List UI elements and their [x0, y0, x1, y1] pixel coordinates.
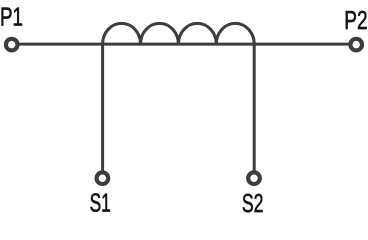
wire P1 to P2 [12, 43, 357, 46]
svg-text:S2: S2 [242, 188, 264, 218]
terminal P1 [6, 39, 18, 51]
svg-text:P2: P2 [344, 5, 367, 35]
wire tap to S2 [253, 44, 256, 178]
svg-text:S1: S1 [90, 188, 111, 218]
terminal S1 [97, 172, 109, 184]
svg-text:P1: P1 [0, 2, 23, 32]
wire tap to S1 [101, 44, 104, 178]
terminal S2 [248, 172, 260, 184]
terminal P2 [350, 39, 362, 51]
inductor L1 coil [103, 23, 255, 44]
